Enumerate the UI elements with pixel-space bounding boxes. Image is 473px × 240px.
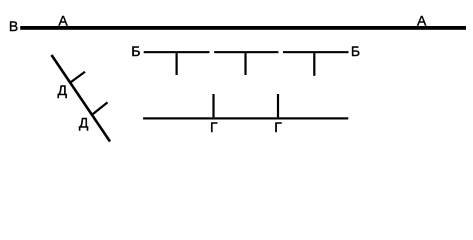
svg-text:А: А: [417, 13, 427, 29]
svg-text:Д: Д: [79, 114, 89, 130]
svg-text:Г: Г: [274, 119, 282, 135]
svg-text:В: В: [9, 18, 18, 34]
svg-text:Б: Б: [351, 43, 360, 59]
svg-text:Г: Г: [210, 119, 218, 135]
svg-text:Д: Д: [58, 82, 68, 98]
svg-text:А: А: [58, 13, 68, 29]
svg-text:Б: Б: [131, 43, 140, 59]
